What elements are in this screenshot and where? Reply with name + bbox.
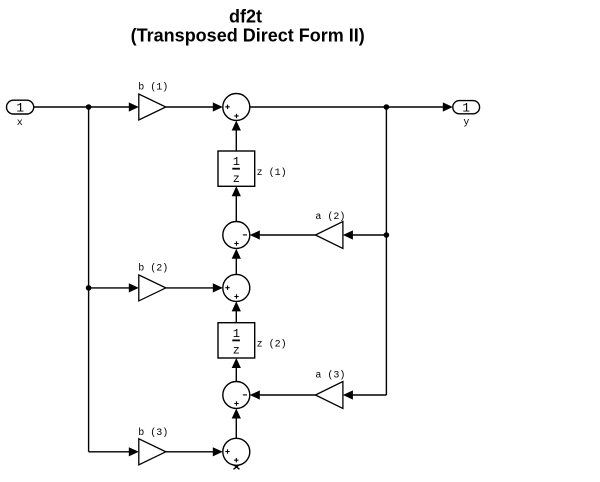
wire: right bus to gain a(2)	[343, 230, 387, 239]
svg-text:b (1): b (1)	[138, 81, 168, 93]
svg-text:z: z	[233, 172, 240, 186]
svg-text:a (2): a (2)	[315, 211, 345, 223]
value label z (1)	[257, 167, 287, 179]
value label a (3)	[315, 370, 345, 382]
junction: left bus at row 3	[86, 285, 92, 291]
wire: right bus to gain a(3)	[343, 390, 387, 399]
wire: sum S3 to sum S2	[232, 249, 241, 275]
gain b(3)	[139, 439, 166, 465]
svg-text:(Transposed Direct Form II): (Transposed Direct Form II)	[131, 25, 365, 45]
value label b (1)	[138, 81, 168, 93]
value label b (2)	[138, 263, 168, 275]
title df2t	[229, 7, 262, 27]
junction: right bus at row 1	[384, 104, 390, 110]
inport 1 (x)	[7, 100, 34, 115]
svg-text:1: 1	[16, 101, 24, 116]
sum S2	[223, 222, 250, 249]
svg-text:z (2): z (2)	[257, 339, 287, 351]
wire: gain b(2) to sum S3	[166, 283, 223, 292]
gain a(3)	[315, 382, 343, 409]
svg-text:x: x	[17, 118, 23, 129]
junction: left bus at row 1	[86, 104, 92, 110]
svg-text:1: 1	[233, 155, 240, 169]
wire: inport x to gain b(1)	[34, 102, 139, 111]
svg-text:z (1): z (1)	[257, 167, 287, 179]
sum S5	[223, 438, 250, 469]
wire: gain a(2) to sum S2	[250, 230, 316, 239]
wire: delay z(2) output to sum S3	[232, 301, 241, 322]
gain b(1)	[139, 94, 166, 120]
wire: gain b(1) to sum S1	[166, 102, 223, 111]
delay U1 1/z	[218, 151, 255, 186]
wire: gain b(3) to sum S5	[166, 447, 223, 456]
wire: left bus to gain b(2)	[89, 283, 139, 292]
svg-text:z: z	[233, 344, 240, 358]
wire: sum S5 to sum S4	[232, 409, 241, 439]
svg-text:df2t: df2t	[229, 7, 262, 27]
delay U2 1/z	[218, 323, 255, 358]
value label z (2)	[257, 339, 287, 351]
wire: gain a(3) to sum S4	[250, 390, 316, 399]
svg-text:1: 1	[233, 327, 240, 341]
value label a (2)	[315, 211, 345, 223]
wire: delay z(1) output to sum S1	[232, 121, 241, 152]
svg-text:1: 1	[462, 101, 470, 116]
title (Transposed Direct Form II)	[131, 25, 365, 45]
wire: right bus vertical	[385, 107, 387, 395]
node label x	[17, 118, 23, 129]
svg-text:b (2): b (2)	[138, 263, 168, 275]
junction: right bus at row 2	[384, 232, 390, 238]
wire: sum S2 to delay z(1)	[232, 186, 241, 221]
svg-text:y: y	[463, 118, 469, 129]
outport 1 (y)	[453, 101, 480, 116]
wire: left bus vertical	[88, 107, 90, 452]
value label b (3)	[138, 427, 168, 439]
sum S4	[223, 382, 250, 409]
wire: left bus to gain b(3)	[89, 447, 139, 456]
gain a(2)	[315, 222, 343, 249]
sum S3	[223, 274, 250, 301]
wire: sum S1 to outport y	[250, 102, 453, 111]
node label y	[463, 118, 469, 129]
wire: sum S4 to delay z(2)	[232, 358, 241, 382]
gain b(2)	[139, 275, 166, 301]
sum S1	[223, 94, 250, 121]
svg-text:a (3): a (3)	[315, 370, 345, 382]
svg-text:b (3): b (3)	[138, 427, 168, 439]
